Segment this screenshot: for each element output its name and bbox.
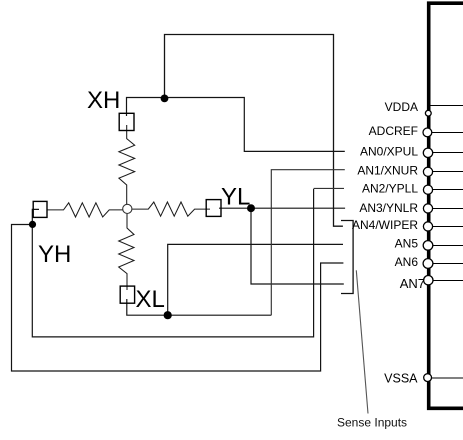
svg-text:AN6: AN6 (395, 255, 419, 269)
svg-text:VSSA: VSSA (384, 371, 418, 385)
svg-text:AN0/XPUL: AN0/XPUL (360, 145, 418, 159)
svg-text:Sense Inputs: Sense Inputs (337, 416, 407, 430)
svg-text:ADCREF: ADCREF (369, 124, 418, 138)
svg-text:XL: XL (136, 286, 165, 313)
svg-text:YL: YL (221, 183, 250, 210)
svg-text:AN4/WIPER: AN4/WIPER (352, 218, 418, 232)
svg-text:XH: XH (87, 87, 120, 114)
svg-text:AN7: AN7 (400, 276, 425, 291)
svg-text:AN3/YNLR: AN3/YNLR (359, 201, 418, 215)
svg-text:VDDA: VDDA (385, 100, 418, 114)
svg-text:AN2/YPLL: AN2/YPLL (362, 182, 418, 196)
svg-text:AN5: AN5 (395, 237, 419, 251)
svg-text:AN1/XNUR: AN1/XNUR (357, 164, 418, 178)
svg-text:YH: YH (38, 241, 71, 268)
